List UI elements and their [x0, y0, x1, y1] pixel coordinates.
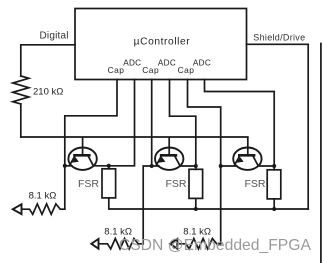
wire 210k bottom to base rail — [20, 104, 22, 137]
resistor FSR3 box — [267, 170, 281, 199]
wire right edge cropped — [320, 44, 322, 263]
wire ADC2 pin route to collector Q2 — [170, 80, 196, 167]
transistor Q3 — [233, 137, 261, 170]
op-amp U1 microcontroller box — [75, 9, 247, 80]
svg-text:8.1 kΩ: 8.1 kΩ — [183, 226, 211, 237]
wire Cap3 pin route — [188, 80, 221, 244]
svg-text:ADC: ADC — [158, 59, 176, 68]
wire ADC3 pin route to collector Q3 — [205, 80, 275, 167]
wire Cap1 pin route — [65, 80, 117, 210]
resistor R1 210 kOhm zigzag — [13, 76, 29, 104]
resistor FSR1 box — [102, 169, 116, 198]
node collector Q2 junction — [194, 164, 198, 168]
resistor R3 8.1 kOhm ch2 zigzag — [99, 239, 144, 249]
wire FSR1 top stub — [108, 166, 110, 169]
electrode arrow ch1 — [13, 204, 22, 214]
svg-text:ADC: ADC — [193, 59, 211, 68]
svg-text:8.1 kΩ: 8.1 kΩ — [29, 190, 57, 201]
node FSR3 bottom junction — [272, 207, 276, 211]
svg-text:Cap: Cap — [142, 65, 159, 75]
svg-text:Cap: Cap — [178, 65, 195, 75]
electrode arrow ch2 — [91, 239, 98, 249]
wire emitter Q3 lead — [221, 165, 237, 167]
svg-text:FSR: FSR — [166, 178, 187, 190]
wire Cap2 jog down to 8.1k ch2 — [143, 166, 152, 244]
svg-text:FSR: FSR — [78, 178, 99, 190]
wire ADC1 pin route to collector Q1 — [94, 80, 135, 166]
node collector Q1 junction — [107, 164, 111, 168]
wire FSR2 bottom stub — [195, 198, 197, 209]
svg-text:FSR: FSR — [245, 178, 266, 190]
wire FSR3 top stub — [273, 166, 275, 170]
resistor FSR2 box — [189, 169, 203, 198]
resistor R4 8.1 kOhm ch3 zigzag — [177, 239, 220, 249]
wire Shield/Drive net — [247, 44, 309, 209]
electrode arrow ch3 — [170, 239, 177, 249]
wire bottom rail — [109, 198, 308, 209]
wire emitter Q2 lead — [152, 165, 159, 167]
svg-text:CSDN @Embedded_FPGA: CSDN @Embedded_FPGA — [119, 237, 312, 254]
resistor R2 8.1 kOhm ch1 zigzag — [22, 204, 65, 214]
wire Digital net: box left edge to 210k — [21, 45, 75, 76]
node emitter Q2 junction — [150, 164, 154, 168]
node FSR2 bottom junction — [194, 207, 198, 211]
node emitter Q3 junction — [219, 164, 223, 168]
wire base rail — [21, 136, 248, 138]
wire Cap2 pin route — [151, 80, 153, 167]
node collector Q3 junction — [272, 164, 276, 168]
svg-text:µController: µController — [134, 36, 191, 47]
transistor Q2 — [155, 137, 183, 170]
wire FSR3 bottom stub — [273, 199, 275, 209]
transistor Q1 — [68, 137, 96, 170]
svg-text:8.1 kΩ: 8.1 kΩ — [104, 226, 132, 237]
svg-text:Digital: Digital — [40, 30, 69, 41]
wire FSR2 top stub — [195, 166, 197, 169]
svg-text:Shield/Drive: Shield/Drive — [253, 33, 305, 43]
node emitter Q1 junction — [63, 164, 67, 168]
svg-text:ADC: ADC — [123, 59, 141, 68]
svg-text:Cap: Cap — [108, 65, 125, 75]
wire emitter Q1 lead — [65, 165, 72, 167]
svg-text:210 kΩ: 210 kΩ — [33, 86, 63, 97]
